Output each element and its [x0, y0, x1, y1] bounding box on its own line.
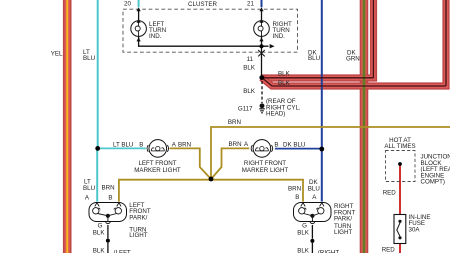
svg-text:G: G: [302, 222, 307, 229]
svg-text:YEL: YEL: [51, 51, 63, 58]
svg-text:LIGHT: LIGHT: [129, 232, 147, 239]
svg-text:BLK: BLK: [93, 248, 106, 253]
svg-text:G: G: [98, 222, 103, 229]
svg-text:BLK: BLK: [93, 230, 106, 237]
svg-text:G117: G117: [238, 105, 253, 112]
svg-text:MARKER LIGHT: MARKER LIGHT: [134, 167, 181, 174]
svg-text:(RIGHT: (RIGHT: [318, 250, 340, 253]
svg-text:20: 20: [124, 1, 131, 8]
svg-text:BLU: BLU: [308, 55, 320, 62]
svg-text:BLK: BLK: [243, 88, 256, 95]
svg-text:BRN: BRN: [288, 185, 301, 192]
svg-text:BLU: BLU: [308, 185, 320, 192]
svg-text:LIGHT: LIGHT: [334, 229, 352, 236]
svg-text:BRN: BRN: [178, 141, 191, 148]
svg-text:(LEFT: (LEFT: [114, 250, 131, 253]
svg-text:B: B: [108, 194, 112, 201]
svg-text:BRN: BRN: [102, 185, 115, 192]
svg-text:B: B: [274, 142, 278, 149]
svg-text:BLK: BLK: [297, 230, 310, 237]
svg-text:BLK: BLK: [297, 248, 310, 253]
svg-text:BRN: BRN: [229, 141, 242, 148]
svg-text:DK BLU: DK BLU: [283, 141, 305, 148]
svg-text:LT BLU: LT BLU: [113, 142, 133, 149]
svg-text:B: B: [295, 194, 299, 201]
svg-text:30A: 30A: [409, 227, 421, 234]
svg-text:BLU: BLU: [83, 55, 95, 62]
svg-text:MARKER LIGHT: MARKER LIGHT: [242, 167, 289, 174]
svg-text:IND.: IND.: [149, 33, 162, 40]
svg-text:BLK: BLK: [243, 64, 256, 71]
svg-text:COMPT): COMPT): [421, 179, 445, 186]
svg-text:BLK: BLK: [278, 70, 291, 77]
svg-text:21: 21: [247, 1, 254, 8]
svg-text:GRN: GRN: [346, 55, 360, 62]
svg-text:IND.: IND.: [273, 33, 286, 40]
svg-text:RED: RED: [383, 189, 397, 196]
svg-text:ALL TIMES: ALL TIMES: [384, 143, 415, 150]
svg-text:11: 11: [247, 56, 254, 63]
svg-text:PARK/: PARK/: [129, 214, 147, 221]
svg-text:PARK/: PARK/: [334, 216, 352, 223]
svg-text:HEAD): HEAD): [266, 111, 285, 118]
svg-text:LEFT FRONT: LEFT FRONT: [138, 160, 176, 167]
svg-text:B: B: [139, 142, 143, 149]
svg-text:BLK: BLK: [278, 80, 291, 87]
svg-text:RED: RED: [382, 246, 396, 253]
svg-text:RIGHT FRONT: RIGHT FRONT: [244, 160, 286, 167]
svg-text:BLU: BLU: [83, 185, 95, 192]
svg-text:CLUSTER: CLUSTER: [188, 1, 217, 8]
svg-text:BRN: BRN: [228, 119, 241, 126]
